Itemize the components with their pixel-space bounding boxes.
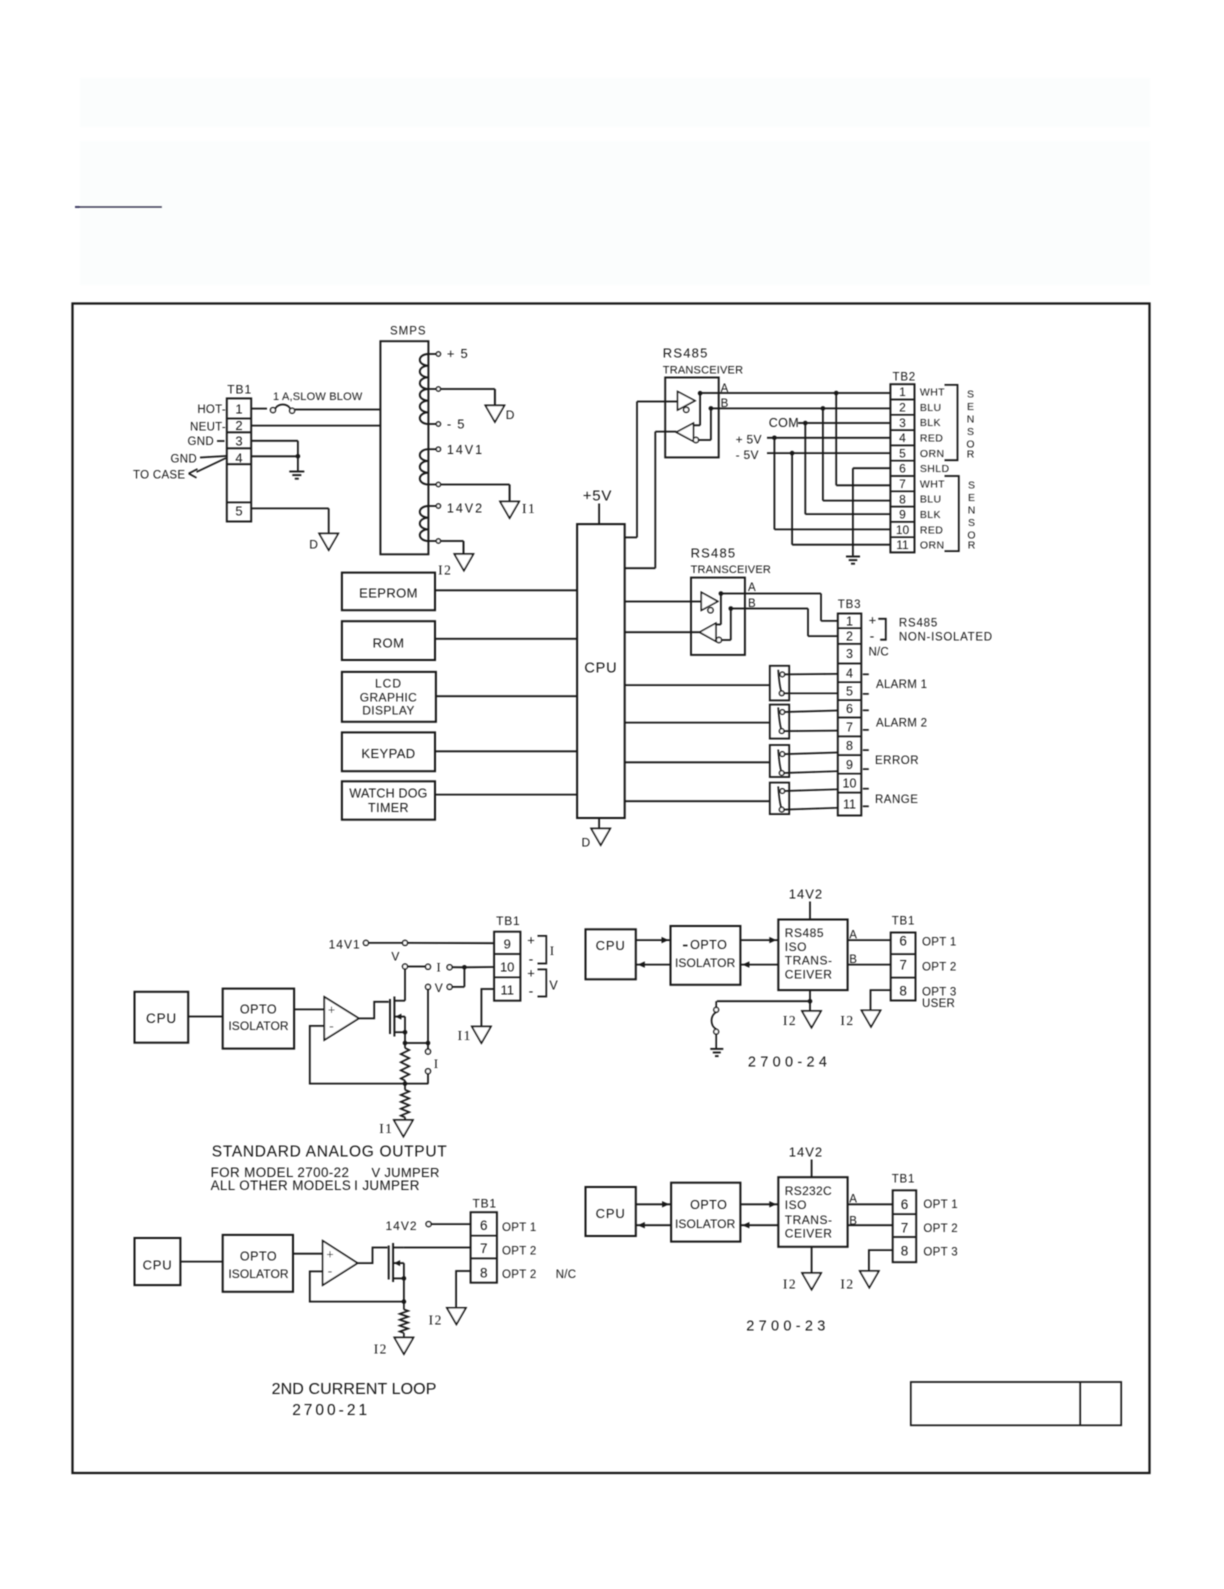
svg-text:ALARM 1: ALARM 1 [876, 679, 927, 691]
svg-text:CPU: CPU [596, 1206, 626, 1221]
svg-text:11: 11 [500, 983, 514, 998]
svg-text:10: 10 [896, 523, 910, 537]
svg-text:S: S [968, 517, 975, 529]
svg-text:OPTO: OPTO [240, 1249, 277, 1263]
svg-text:EEPROM: EEPROM [359, 585, 418, 600]
svg-text:-: - [870, 628, 875, 644]
svg-text:+: + [527, 933, 535, 948]
svg-text:TB1: TB1 [892, 1174, 916, 1186]
svg-text:N/C: N/C [869, 646, 889, 658]
svg-text:1 A,SLOW BLOW: 1 A,SLOW BLOW [273, 391, 363, 403]
svg-text:COM: COM [769, 416, 799, 430]
svg-text:V: V [391, 949, 399, 963]
svg-text:I: I [550, 944, 554, 958]
svg-text:TO CASE: TO CASE [133, 470, 185, 482]
svg-text:6: 6 [480, 1218, 488, 1233]
svg-text:10: 10 [500, 960, 514, 975]
svg-text:6: 6 [899, 462, 906, 476]
svg-text:-: - [529, 983, 534, 999]
svg-text:-: - [328, 1263, 333, 1279]
svg-text:11: 11 [843, 797, 856, 811]
svg-text:TB3: TB3 [838, 599, 862, 611]
svg-text:6: 6 [901, 1197, 909, 1212]
svg-text:STANDARD ANALOG OUTPUT: STANDARD ANALOG OUTPUT [212, 1144, 448, 1161]
svg-text:6: 6 [846, 702, 853, 716]
svg-text:OPT 2: OPT 2 [502, 1246, 537, 1258]
svg-text:2: 2 [846, 629, 853, 643]
svg-text:WHT: WHT [920, 387, 945, 399]
svg-text:4: 4 [235, 450, 242, 465]
svg-text:TIMER: TIMER [368, 801, 409, 815]
svg-text:CPU: CPU [143, 1257, 173, 1272]
svg-text:HOT-: HOT- [197, 404, 226, 416]
svg-text:14V2: 14V2 [789, 1145, 823, 1160]
svg-text:TB1: TB1 [496, 914, 520, 928]
svg-text:OPT 3: OPT 3 [922, 987, 957, 999]
svg-text:OPT 2: OPT 2 [922, 961, 957, 973]
svg-text:2700-23: 2700-23 [746, 1318, 829, 1334]
svg-text:ISOLATOR: ISOLATOR [228, 1267, 289, 1281]
svg-text:+: + [527, 966, 535, 981]
svg-text:2: 2 [235, 418, 242, 433]
svg-text:TRANS-: TRANS- [785, 1213, 833, 1227]
svg-text:ORN: ORN [920, 448, 945, 460]
svg-text:KEYPAD: KEYPAD [361, 746, 415, 761]
svg-text:CPU: CPU [146, 1011, 177, 1026]
svg-text:OPTO: OPTO [240, 1002, 277, 1016]
svg-text:I: I [434, 1057, 438, 1071]
svg-text:N/C: N/C [556, 1269, 577, 1281]
svg-text:-: - [529, 951, 534, 967]
svg-text:3: 3 [235, 433, 242, 448]
svg-text:OPT 2: OPT 2 [923, 1223, 958, 1235]
svg-text:+ 5V: + 5V [736, 432, 762, 446]
svg-text:-: - [329, 1018, 334, 1034]
svg-text:8: 8 [901, 1244, 909, 1259]
svg-text:I2: I2 [783, 1013, 797, 1028]
svg-text:7: 7 [480, 1241, 488, 1256]
svg-text:TB2: TB2 [893, 371, 917, 383]
svg-text:9: 9 [846, 758, 853, 772]
svg-text:I2: I2 [840, 1013, 854, 1028]
svg-text:+: + [328, 1003, 335, 1017]
svg-text:N: N [968, 505, 976, 517]
svg-text:11: 11 [896, 538, 909, 552]
svg-text:V: V [435, 981, 443, 995]
svg-text:3: 3 [899, 416, 906, 430]
svg-text:2: 2 [899, 400, 906, 414]
svg-text:8: 8 [480, 1265, 488, 1280]
svg-text:ISOLATOR: ISOLATOR [228, 1019, 289, 1033]
svg-text:ISO: ISO [785, 1198, 807, 1212]
svg-text:I JUMPER: I JUMPER [354, 1178, 420, 1193]
svg-text:RED: RED [920, 524, 943, 536]
svg-text:SHLD: SHLD [920, 463, 950, 475]
svg-text:RS485: RS485 [785, 926, 824, 940]
svg-text:1: 1 [846, 614, 853, 628]
svg-text:GRAPHIC: GRAPHIC [360, 691, 417, 705]
svg-text:4: 4 [899, 431, 906, 445]
svg-text:9: 9 [504, 937, 511, 952]
svg-text:I1: I1 [458, 1028, 472, 1043]
svg-text:I2: I2 [429, 1312, 443, 1327]
svg-text:ALARM 2: ALARM 2 [876, 718, 927, 730]
svg-text:14V2: 14V2 [789, 887, 823, 902]
svg-text:2700-24: 2700-24 [748, 1054, 831, 1070]
svg-text:2ND CURRENT LOOP: 2ND CURRENT LOOP [272, 1381, 437, 1398]
svg-text:OPTO: OPTO [690, 938, 727, 952]
svg-text:I2: I2 [374, 1341, 388, 1356]
svg-text:SMPS: SMPS [390, 326, 427, 338]
svg-text:+ 5: + 5 [447, 346, 469, 361]
svg-text:D: D [506, 408, 515, 422]
svg-text:1: 1 [235, 401, 242, 416]
svg-text:14V2: 14V2 [386, 1219, 418, 1233]
svg-text:R: R [967, 448, 975, 460]
svg-text:B: B [748, 598, 756, 610]
svg-text:8: 8 [846, 739, 853, 753]
svg-text:5: 5 [235, 504, 242, 519]
svg-text:ISOLATOR: ISOLATOR [675, 1217, 736, 1231]
svg-text:WHT: WHT [920, 478, 945, 490]
svg-text:I1: I1 [379, 1121, 393, 1136]
svg-text:- 5: - 5 [447, 417, 466, 432]
svg-text:14V1: 14V1 [329, 938, 361, 952]
svg-text:6: 6 [899, 934, 907, 949]
svg-text:CEIVER: CEIVER [785, 1227, 833, 1241]
svg-text:ROM: ROM [373, 636, 405, 651]
svg-text:OPTO: OPTO [690, 1198, 727, 1212]
svg-text:RS485: RS485 [691, 546, 737, 561]
svg-text:E: E [968, 492, 975, 504]
svg-text:RED: RED [920, 432, 943, 444]
svg-text:S: S [967, 388, 974, 400]
svg-text:OPT 3: OPT 3 [923, 1247, 958, 1259]
svg-text:I1: I1 [522, 501, 536, 516]
svg-text:TRANSCEIVER: TRANSCEIVER [663, 365, 743, 377]
svg-text:BLK: BLK [920, 417, 941, 429]
svg-text:7: 7 [899, 957, 907, 972]
svg-text:B: B [721, 398, 729, 410]
svg-text:OPT 1: OPT 1 [923, 1199, 958, 1211]
svg-text:7: 7 [899, 477, 906, 491]
svg-text:4: 4 [846, 666, 853, 680]
svg-text:3: 3 [846, 647, 853, 661]
svg-text:ERROR: ERROR [875, 755, 919, 767]
svg-text:14V2: 14V2 [447, 502, 484, 516]
svg-text:LCD: LCD [375, 676, 402, 690]
svg-text:GND: GND [188, 436, 214, 448]
svg-text:E: E [967, 401, 974, 413]
svg-text:RANGE: RANGE [875, 794, 918, 806]
svg-text:7: 7 [846, 720, 853, 734]
svg-text:2700-21: 2700-21 [292, 1402, 370, 1419]
svg-text:A: A [721, 383, 729, 395]
svg-text:+5V: +5V [583, 488, 613, 505]
svg-text:14V1: 14V1 [447, 443, 484, 457]
svg-text:I: I [437, 961, 441, 975]
svg-text:BLU: BLU [920, 494, 942, 506]
svg-text:OPT 1: OPT 1 [502, 1222, 537, 1234]
svg-text:ISOLATOR: ISOLATOR [675, 956, 736, 970]
svg-text:OPT 1: OPT 1 [922, 937, 957, 949]
svg-text:NON-ISOLATED: NON-ISOLATED [899, 632, 993, 644]
svg-text:R: R [968, 539, 976, 551]
svg-text:USER: USER [922, 998, 955, 1010]
svg-text:BLK: BLK [920, 509, 941, 521]
svg-text:D: D [582, 836, 591, 850]
svg-text:RS232C: RS232C [785, 1184, 832, 1198]
svg-text:TRANSCEIVER: TRANSCEIVER [691, 564, 771, 576]
svg-text:+: + [326, 1248, 333, 1262]
svg-text:ORN: ORN [920, 540, 945, 552]
svg-text:9: 9 [899, 508, 906, 522]
svg-text:- 5V: - 5V [736, 448, 759, 462]
svg-text:GND: GND [171, 454, 197, 466]
svg-text:8: 8 [899, 492, 906, 506]
svg-text:TB1: TB1 [892, 916, 916, 928]
svg-text:TB1: TB1 [473, 1197, 497, 1211]
svg-text:S: S [968, 480, 975, 492]
svg-text:I2: I2 [840, 1276, 854, 1291]
svg-text:N: N [967, 413, 975, 425]
svg-text:8: 8 [899, 984, 907, 999]
svg-text:I2: I2 [783, 1276, 797, 1291]
svg-text:BLU: BLU [920, 402, 942, 414]
svg-text:ISO: ISO [785, 940, 807, 954]
svg-text:CEIVER: CEIVER [785, 968, 833, 982]
svg-text:TB1: TB1 [227, 383, 252, 397]
svg-text:CPU: CPU [584, 661, 617, 677]
svg-text:D: D [309, 538, 318, 552]
svg-text:5: 5 [899, 446, 906, 460]
svg-text:V: V [549, 979, 558, 993]
svg-text:ALL OTHER MODELS: ALL OTHER MODELS [211, 1178, 352, 1193]
svg-text:RS485: RS485 [663, 345, 709, 360]
svg-text:WATCH DOG: WATCH DOG [349, 787, 427, 801]
svg-text:S: S [967, 426, 974, 438]
svg-text:I2: I2 [438, 563, 452, 578]
svg-text:10: 10 [843, 777, 857, 791]
svg-text:OPT 2: OPT 2 [502, 1269, 537, 1281]
svg-text:+: + [869, 612, 877, 627]
svg-text:NEUT-: NEUT- [190, 422, 226, 434]
svg-text:CPU: CPU [596, 938, 626, 953]
svg-text:RS485: RS485 [899, 618, 938, 630]
svg-text:5: 5 [846, 685, 853, 699]
svg-text:1: 1 [899, 385, 906, 399]
svg-text:7: 7 [901, 1221, 909, 1236]
svg-text:DISPLAY: DISPLAY [362, 704, 415, 718]
svg-text:A: A [748, 582, 756, 594]
svg-text:TRANS-: TRANS- [785, 954, 833, 968]
